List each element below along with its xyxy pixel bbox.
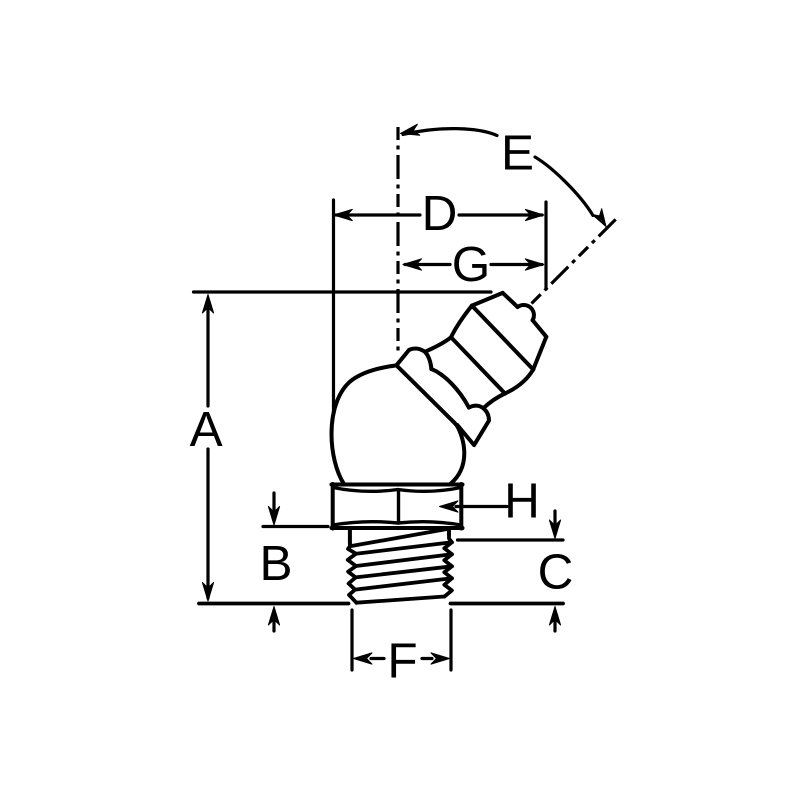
arrowhead A top: [202, 295, 213, 314]
hex nut top chamfer arcs: [333, 488, 461, 492]
arrowhead D left: [334, 209, 353, 220]
line L1 across cone: [472, 306, 533, 370]
thread crest lines: [355, 542, 452, 589]
svg-text:D: D: [422, 186, 458, 241]
svg-text:F: F: [387, 634, 417, 689]
arrow C upper: [553, 511, 556, 524]
nipple collar side edge: [396, 350, 409, 365]
nipple right bump: [457, 406, 489, 445]
extension line D right: [544, 202, 547, 289]
hex nut middle facet line: [397, 490, 400, 523]
nipple dome arc: [431, 369, 469, 408]
svg-text:G: G: [452, 237, 491, 292]
svg-text:H: H: [504, 474, 540, 529]
thread bottom edge: [356, 597, 444, 603]
arrowhead G left: [403, 259, 422, 270]
hex nut outline: [332, 484, 463, 529]
tick line B (hex bottom level): [263, 525, 328, 528]
arrow H: [456, 505, 507, 508]
hex nut bottom chamfer arcs: [333, 522, 461, 525]
line L2 across waist: [451, 337, 505, 393]
centerline vertical: [396, 127, 399, 356]
svg-text:E: E: [501, 126, 534, 181]
svg-text:A: A: [190, 402, 223, 457]
dimension D line: [336, 213, 542, 216]
baseline right segment: [451, 602, 564, 606]
arrowhead A bottom: [202, 583, 213, 602]
svg-text:B: B: [259, 536, 292, 591]
svg-text:C: C: [538, 545, 574, 600]
cone left edge: [451, 306, 472, 338]
tick line C (thread top level): [458, 538, 564, 541]
arrow B lower: [272, 621, 275, 631]
nipple left flare curve: [409, 337, 451, 352]
tip left chamfer: [472, 293, 503, 306]
dimension E arc: [403, 129, 593, 216]
dimension G line: [405, 263, 542, 266]
arrowhead G right: [525, 259, 544, 270]
tip cap line: [503, 293, 547, 337]
shank left: [348, 529, 352, 544]
nipple left bump arc: [425, 352, 432, 369]
arrowhead F left: [354, 653, 373, 664]
ball right outline: [451, 423, 465, 484]
thread zigzag left: [348, 543, 357, 603]
arrowhead E right: [592, 209, 606, 227]
shank right: [447, 529, 451, 534]
extension line F left: [350, 610, 353, 670]
extension line D left: [332, 200, 335, 415]
arrow C lower: [553, 621, 556, 631]
check ball arc: [518, 305, 534, 320]
arrowhead D right: [525, 209, 544, 220]
thread lead-in line: [350, 529, 449, 547]
ball left outline: [332, 365, 397, 484]
baseline left segment: [199, 602, 349, 606]
extension line F right: [449, 610, 452, 670]
arrow B upper: [272, 493, 275, 511]
cone right edge: [483, 370, 533, 409]
centerline slanted 45deg: [532, 216, 620, 304]
tip right chamfer: [533, 337, 546, 370]
extension line top (A): [194, 290, 492, 293]
arrowhead F right: [431, 653, 450, 664]
arrowhead E left: [401, 124, 420, 135]
thread zigzag right: [444, 534, 452, 597]
dimension A line: [206, 300, 209, 598]
nipple skirt base edge: [396, 365, 454, 423]
dimension F line: [371, 657, 432, 660]
